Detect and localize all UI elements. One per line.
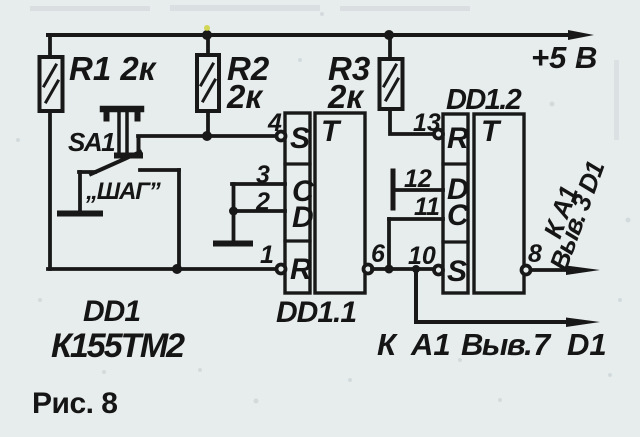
wire R3 bottom to pin 13 [390, 109, 434, 134]
wire output branch to arrow [416, 320, 564, 324]
svg-text:2: 2 [255, 188, 270, 216]
wire lower rail to pin 1 [48, 267, 277, 271]
switch SA1 actuator foot [117, 153, 140, 159]
junction dot lower rail [172, 264, 182, 274]
scan smudge right [614, 60, 619, 140]
svg-text:S: S [447, 255, 467, 288]
svg-text:Рис. 8: Рис. 8 [32, 387, 118, 420]
svg-text:10: 10 [408, 242, 436, 270]
svg-text:13: 13 [413, 109, 441, 137]
switch SA1 actuator stem [119, 113, 127, 156]
DD1.1 main body [315, 113, 365, 293]
switch SA1 lower fixed contact wire [140, 168, 179, 172]
svg-text:2к: 2к [226, 78, 264, 115]
svg-text:R: R [290, 253, 312, 286]
arrowhead output Vyv.3 [566, 266, 600, 276]
wire pin 6 to pin 10 [372, 267, 433, 271]
svg-text:2к: 2к [327, 78, 365, 115]
svg-text:D: D [292, 201, 314, 234]
svg-text:DD1.2: DD1.2 [446, 84, 522, 116]
+5V rail arrowhead [568, 30, 594, 40]
pin 4 inversion bubble [277, 132, 286, 141]
svg-text:3: 3 [256, 161, 270, 189]
wire R2 top stem [206, 35, 210, 55]
junction dot output branch [412, 265, 420, 273]
wire pin 11 down to node [387, 219, 391, 269]
wire lower contact down to lower rail [177, 170, 181, 269]
switch SA1 upper fixed contact [137, 137, 141, 151]
svg-text:R1 2к: R1 2к [69, 50, 158, 87]
junction dot node pin 11 [385, 265, 394, 274]
pin 13 inversion bubble [434, 130, 443, 139]
pin 6 inversion bubble [364, 265, 373, 274]
pin 1 inversion bubble [277, 265, 286, 274]
DD1.1 cell dividers [285, 164, 310, 241]
op DD1.2 pin field [443, 114, 468, 293]
resistor R1 body [40, 57, 63, 111]
svg-text:T: T [481, 115, 502, 148]
wire output branch down [414, 269, 418, 322]
wire pin 8 output [531, 268, 570, 272]
ground bar (pin 12) [391, 171, 396, 208]
switch SA1 moving arm [91, 152, 140, 174]
yellow scan speck [204, 25, 210, 31]
junction dot R3 top [384, 30, 394, 40]
svg-text:DD1: DD1 [83, 295, 140, 328]
svg-text:„ШАГ”: „ШАГ” [85, 178, 161, 205]
svg-text:DD1.1: DD1.1 [276, 296, 356, 329]
junction dot R2 bottom [202, 131, 212, 141]
+5V rail wire [48, 33, 570, 37]
wire R1 top stem [48, 35, 52, 57]
svg-text:11: 11 [414, 193, 440, 221]
svg-text:+5 В: +5 В [531, 40, 597, 75]
ground bar (switch common) [60, 211, 100, 217]
svg-text:T: T [321, 115, 342, 148]
resistor R2 body [197, 55, 219, 111]
wire R3 top stem [388, 35, 392, 59]
DD1.2 main body [474, 114, 524, 293]
svg-text:12: 12 [404, 165, 432, 193]
wire pin 2 D input [232, 209, 285, 213]
svg-text:SA1: SA1 [68, 127, 115, 157]
wire R1 bottom to lower rail [48, 111, 52, 269]
svg-text:1: 1 [260, 241, 274, 269]
resistor R3 body [380, 59, 403, 109]
wire upper contact to S pin 4 [138, 134, 277, 138]
wire pivot to ground [78, 172, 82, 211]
svg-text:КА1Выв.7D1: КА1Выв.7D1 [377, 327, 607, 362]
arrowhead output Vyv.7 [566, 318, 600, 328]
junction dot pins 2,3 [229, 207, 238, 216]
wire R2 bottom stem [206, 111, 210, 136]
resistor R3 power slashes [384, 65, 398, 100]
scan ghost streak top [30, 6, 150, 11]
wire joining pins 2,3 [232, 184, 236, 211]
svg-text:C: C [447, 199, 470, 232]
op DD1.1 pin field [285, 113, 310, 293]
svg-text:R: R [447, 122, 469, 155]
wire down to ground [232, 211, 236, 241]
junction dot R2 top [202, 30, 212, 40]
pin 8 inversion bubble [522, 266, 531, 275]
svg-text:К155ТМ2: К155ТМ2 [51, 327, 185, 365]
svg-text:6: 6 [371, 240, 386, 268]
svg-text:8: 8 [528, 240, 542, 268]
wire switch pivot [79, 170, 95, 174]
svg-text:S: S [290, 122, 310, 155]
svg-text:4: 4 [267, 109, 282, 137]
DD1.2 cell dividers [443, 164, 468, 242]
ground bar (pins 2,3) [216, 241, 250, 247]
resistor R1 power slashes [44, 65, 58, 102]
wire pin 3 C input [232, 182, 285, 186]
switch SA1 actuator T-handle [103, 106, 141, 113]
wire pin 12 D input [395, 188, 443, 192]
resistor R2 power slashes [201, 64, 215, 101]
wire pin 11 C input [389, 217, 443, 221]
pin 10 inversion bubble [434, 266, 443, 275]
